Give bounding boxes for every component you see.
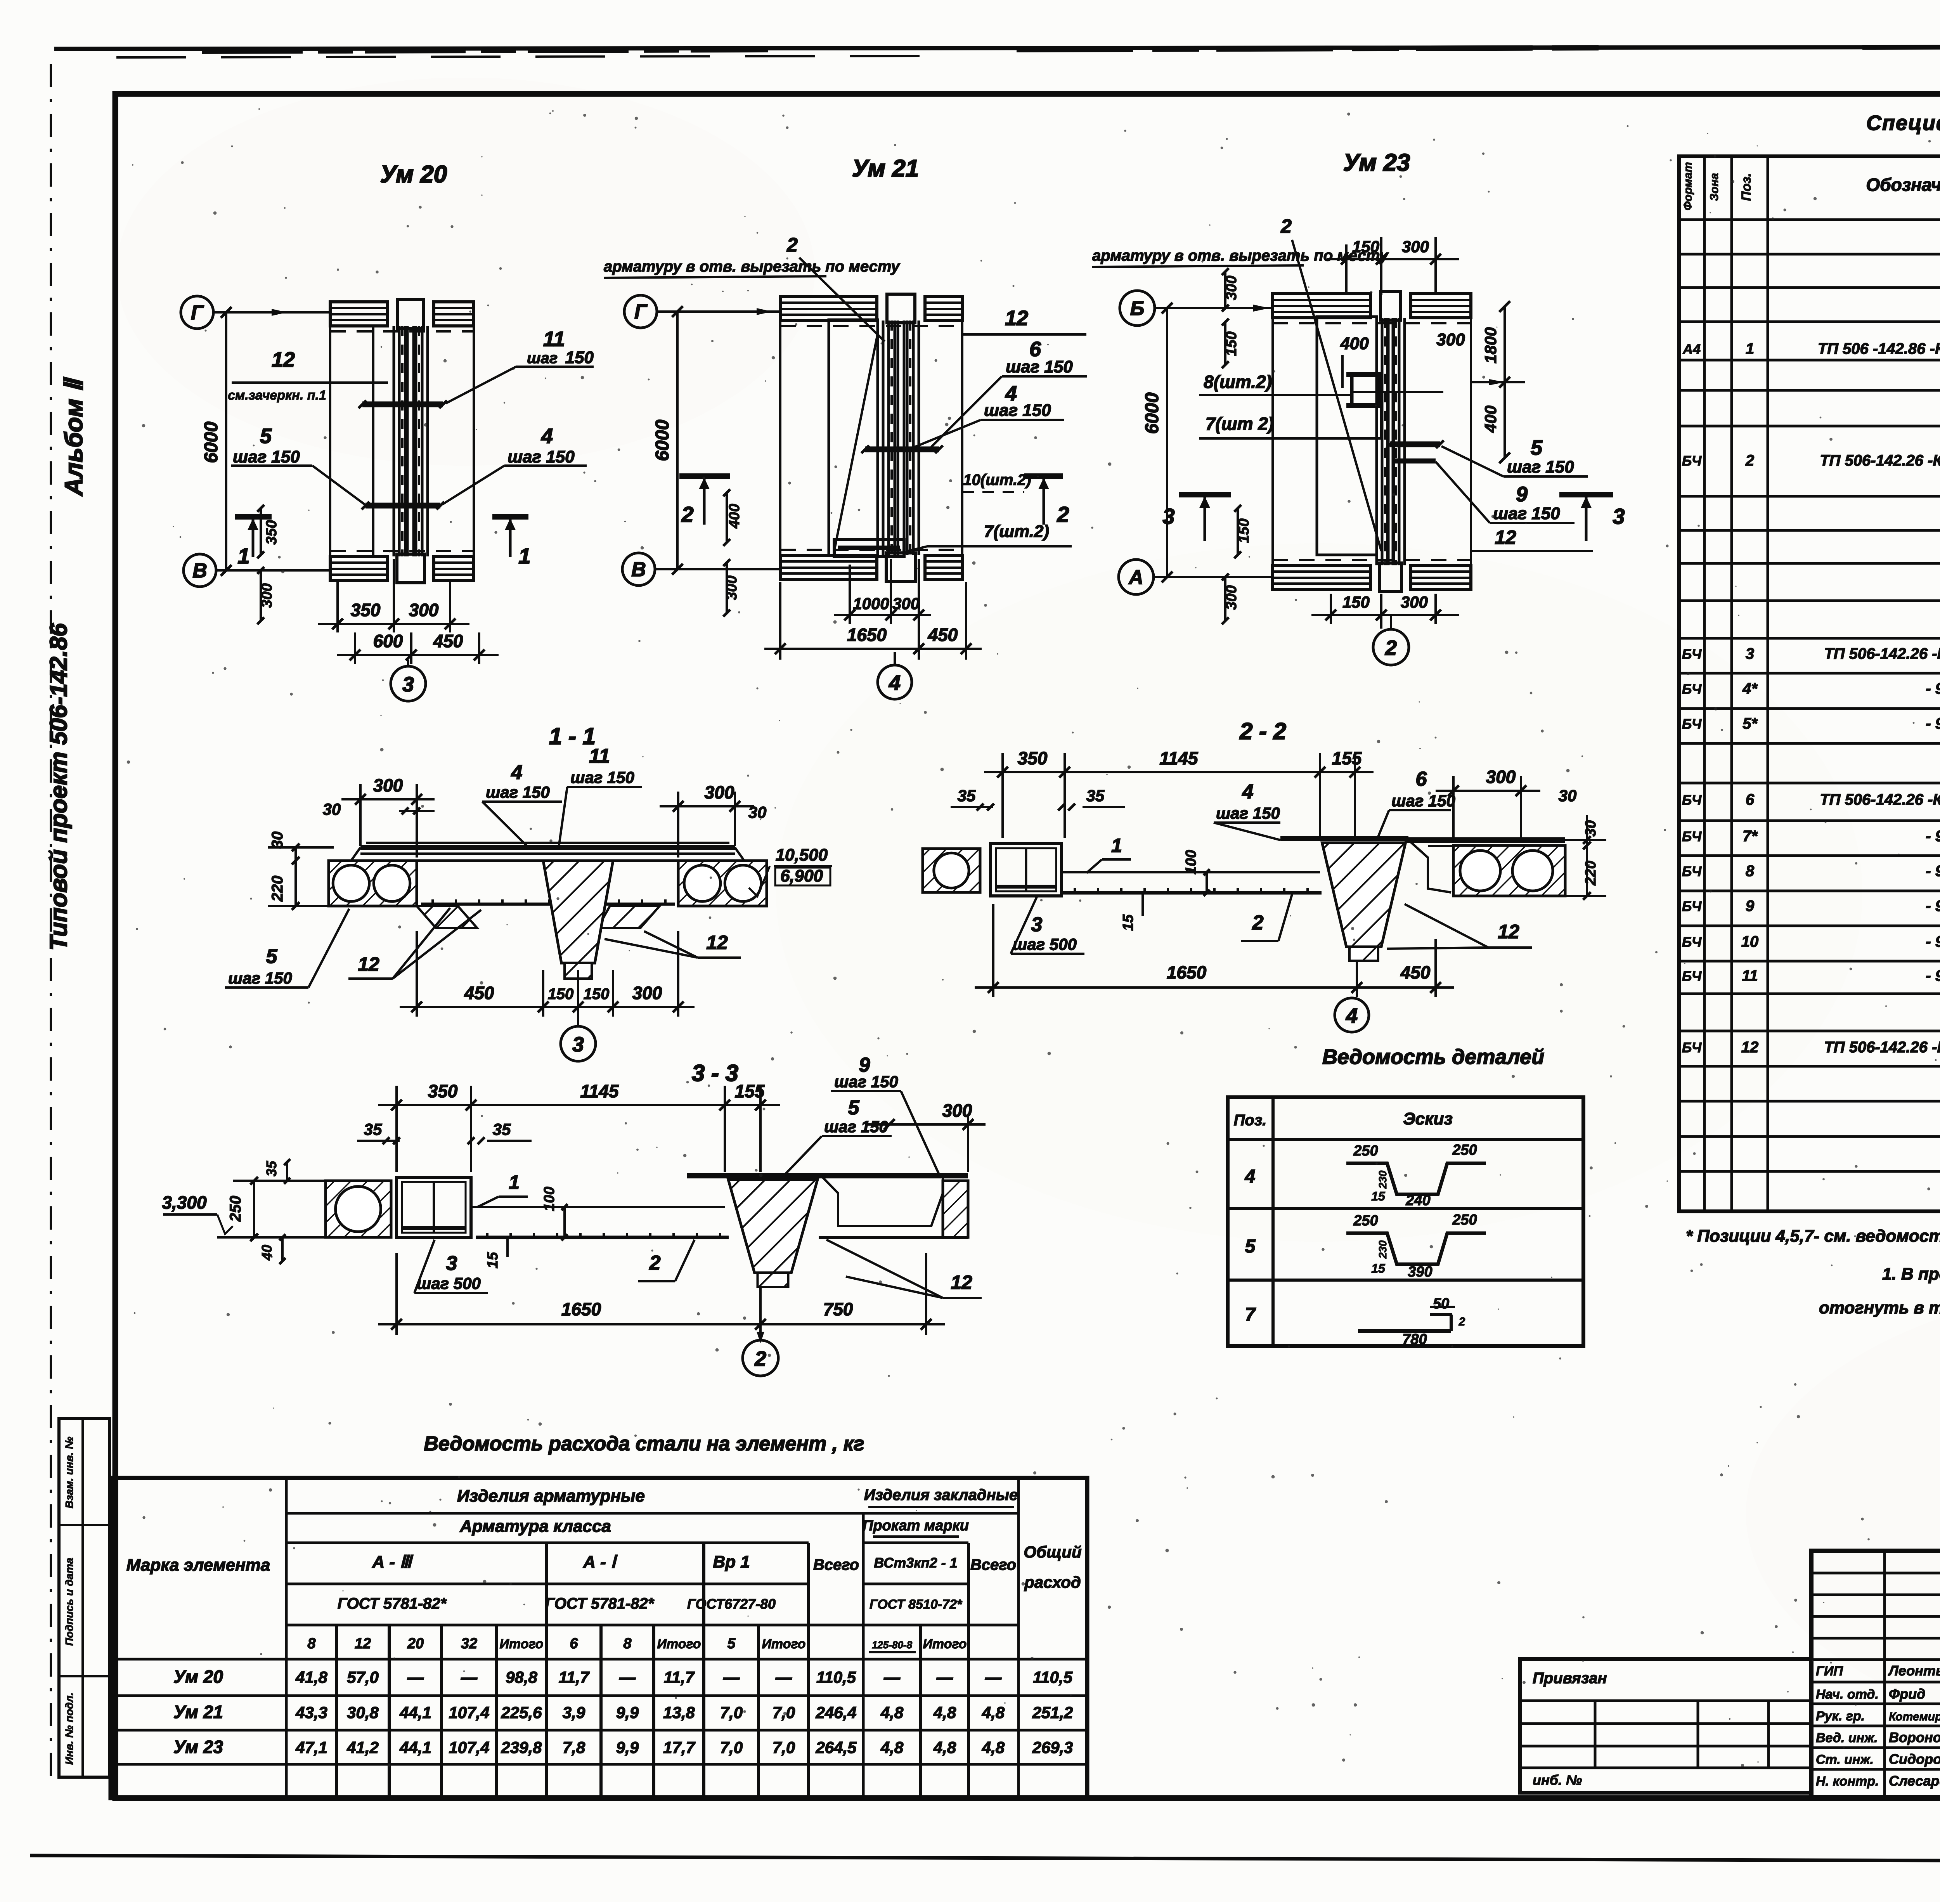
- svg-text:600: 600: [373, 631, 403, 651]
- svg-text:шаг 150: шаг 150: [824, 1117, 888, 1136]
- svg-text:450: 450: [1400, 962, 1431, 982]
- svg-text:4,8: 4,8: [982, 1738, 1005, 1757]
- rebar bar pos 4/5: [365, 503, 440, 509]
- svg-text:3: 3: [402, 673, 414, 696]
- joint rib: [687, 1173, 823, 1178]
- rebar bar pos 11: [362, 402, 443, 407]
- svg-text:35: 35: [1086, 787, 1105, 805]
- joint wings: [417, 906, 477, 928]
- svg-text:—: —: [407, 1668, 424, 1686]
- svg-text:41,8: 41,8: [295, 1668, 327, 1686]
- svg-text:100: 100: [541, 1187, 558, 1211]
- sheet left dash-dot edge: [50, 64, 52, 1781]
- beam box: [991, 844, 1062, 896]
- svg-text:шаг 150: шаг 150: [834, 1072, 898, 1091]
- svg-text:Ум 20: Ум 20: [173, 1667, 223, 1687]
- svg-text:Прокат марки: Прокат марки: [863, 1518, 969, 1534]
- svg-text:4: 4: [1346, 1004, 1358, 1027]
- specification table: [1679, 107, 1940, 1211]
- section bubble 4: [894, 652, 896, 665]
- svg-text:4: 4: [1245, 1166, 1256, 1187]
- dim 300 top-left: [359, 784, 362, 846]
- svg-text:1650: 1650: [561, 1299, 601, 1319]
- svg-text:Сидорова: Сидорова: [1889, 1751, 1940, 1767]
- svg-text:15: 15: [1120, 914, 1136, 931]
- svg-text:3: 3: [1613, 504, 1625, 528]
- svg-text:239,8: 239,8: [501, 1738, 542, 1757]
- joint slab lines: [417, 859, 543, 862]
- svg-text:300: 300: [1401, 593, 1428, 611]
- svg-text:1650: 1650: [847, 625, 887, 645]
- grid circle B: [1120, 291, 1155, 326]
- svg-text:5: 5: [1531, 436, 1543, 459]
- svg-text:5: 5: [727, 1635, 736, 1652]
- svg-text:98,8: 98,8: [506, 1668, 537, 1686]
- right hollow slab: [678, 861, 767, 906]
- svg-text:3: 3: [1031, 913, 1043, 936]
- svg-text:Спецификация: Спецификация: [1866, 111, 1940, 135]
- svg-text:Поз.: Поз.: [1739, 173, 1754, 201]
- svg-text:5: 5: [260, 424, 272, 448]
- vertical dim 6000: [225, 312, 227, 570]
- svg-text:150: 150: [1342, 593, 1370, 611]
- svg-text:2: 2: [1385, 636, 1397, 660]
- svg-text:шаг 150: шаг 150: [1493, 504, 1560, 523]
- svg-text:44,1: 44,1: [399, 1738, 431, 1757]
- svg-text:1650: 1650: [1167, 962, 1207, 982]
- svg-text:12: 12: [358, 953, 379, 975]
- bottom dims 1650/450: [992, 904, 994, 997]
- svg-text:10: 10: [1741, 933, 1759, 950]
- svg-text:30: 30: [748, 803, 767, 821]
- section mark 3 left: [1179, 492, 1231, 497]
- svg-text:13,8: 13,8: [663, 1703, 695, 1722]
- dims 150/300 bottom: [1330, 594, 1332, 624]
- section 3-3: [162, 1054, 986, 1376]
- svg-text:9: 9: [1746, 897, 1755, 915]
- svg-text:12: 12: [1005, 307, 1028, 330]
- svg-text:300: 300: [1402, 237, 1429, 256]
- svg-text:5: 5: [266, 945, 278, 968]
- vertical dim 6000: [676, 312, 679, 569]
- opening outline: [829, 320, 878, 556]
- svg-text:шаг 150: шаг 150: [1216, 804, 1280, 822]
- svg-text:Б: Б: [1130, 297, 1145, 320]
- svg-text:ГОСТ6727-80: ГОСТ6727-80: [687, 1596, 776, 1612]
- svg-text:Ум 20: Ум 20: [380, 161, 447, 188]
- svg-text:5: 5: [1245, 1236, 1256, 1257]
- sheet bottom edge: [30, 1855, 1940, 1862]
- detail 8 box: [1352, 374, 1379, 405]
- section mark 2 left: [679, 473, 730, 479]
- svg-text:Котемировская: Котемировская: [1889, 1710, 1940, 1723]
- svg-text:3: 3: [1746, 645, 1754, 662]
- svg-text:Всего: Всего: [813, 1556, 859, 1573]
- svg-text:47,1: 47,1: [295, 1738, 327, 1757]
- svg-text:30: 30: [269, 832, 286, 849]
- svg-text:3: 3: [572, 1033, 584, 1056]
- svg-text:Ст. инж.: Ст. инж.: [1816, 1752, 1874, 1767]
- svg-text:Изделия закладные: Изделия закладные: [864, 1486, 1018, 1504]
- svg-text:15: 15: [1371, 1189, 1386, 1203]
- svg-text:35: 35: [958, 787, 976, 805]
- svg-text:8(шт.2): 8(шт.2): [1204, 372, 1272, 392]
- svg-text:2: 2: [1280, 215, 1292, 237]
- svg-text:250: 250: [1353, 1213, 1378, 1229]
- svg-text:250: 250: [1452, 1212, 1477, 1228]
- svg-text:Итого: Итого: [762, 1637, 805, 1651]
- svg-text:Нач. отд.: Нач. отд.: [1816, 1687, 1879, 1702]
- svg-text:2: 2: [1745, 452, 1754, 469]
- svg-text:12: 12: [272, 348, 295, 371]
- svg-text:БЧ: БЧ: [1682, 646, 1702, 662]
- svg-text:110,5: 110,5: [816, 1668, 856, 1686]
- svg-text:4,8: 4,8: [933, 1738, 956, 1757]
- left partial slab: [326, 1181, 391, 1237]
- svg-text:ГИП: ГИП: [1816, 1664, 1843, 1679]
- svg-text:Типовой проект 506-142.86: Типовой проект 506-142.86: [45, 623, 72, 951]
- svg-text:Леонтьев: Леонтьев: [1888, 1663, 1940, 1679]
- svg-text:ГОСТ 8510-72*: ГОСТ 8510-72*: [870, 1597, 963, 1612]
- svg-text:Привязан: Привязан: [1533, 1670, 1607, 1687]
- svg-text:350: 350: [1018, 748, 1048, 768]
- svg-text:150: 150: [548, 986, 574, 1003]
- svg-text:2: 2: [786, 234, 798, 256]
- dims 1650/450: [779, 582, 781, 660]
- svg-text:Ум 23: Ум 23: [1343, 149, 1410, 176]
- svg-text:БЧ: БЧ: [1682, 828, 1702, 844]
- bottom mesh: [421, 903, 675, 906]
- svg-text:Вед. инж.: Вед. инж.: [1816, 1731, 1878, 1745]
- svg-text:250: 250: [1353, 1143, 1378, 1159]
- svg-text:6,900: 6,900: [780, 866, 823, 885]
- svg-text:Итого: Итого: [923, 1637, 967, 1651]
- section bubble 2: [1390, 615, 1392, 629]
- svg-text:400: 400: [726, 504, 743, 528]
- svg-text:300: 300: [892, 594, 920, 613]
- dim 300 right: [967, 1114, 969, 1172]
- svg-text:ТП 506-142.26 -КЖИ - 943.00: ТП 506-142.26 -КЖИ - 943.00: [1820, 791, 1940, 808]
- svg-text:9: 9: [1516, 483, 1528, 506]
- svg-text:250: 250: [1452, 1142, 1477, 1158]
- plan view Um20: [181, 161, 594, 701]
- svg-text:—: —: [883, 1668, 901, 1686]
- svg-text:11,7: 11,7: [559, 1668, 590, 1686]
- svg-text:35: 35: [364, 1120, 382, 1138]
- svg-text:50: 50: [1433, 1296, 1449, 1312]
- svg-text:- 970.00: - 970.00: [1926, 967, 1940, 984]
- svg-text:11: 11: [1742, 967, 1758, 984]
- svg-text:2: 2: [1458, 1315, 1465, 1328]
- svg-text:Ум 21: Ум 21: [173, 1702, 223, 1722]
- svg-text:—: —: [461, 1668, 478, 1686]
- vertical dim 6000: [1166, 308, 1168, 577]
- svg-text:4: 4: [889, 671, 901, 695]
- svg-text:35: 35: [263, 1161, 279, 1176]
- joint rib: [1280, 836, 1408, 841]
- section mark 1 left: [235, 514, 272, 520]
- privyazan box: [1520, 1659, 1811, 1793]
- svg-text:Инв. № подл.: Инв. № подл.: [63, 1693, 75, 1765]
- svg-text:ГОСТ 5781-82*: ГОСТ 5781-82*: [338, 1595, 447, 1612]
- svg-text:450: 450: [464, 983, 494, 1003]
- svg-text:ТП 506-142.26 -КЖИ-966.00: ТП 506-142.26 -КЖИ-966.00: [1824, 645, 1940, 662]
- svg-text:Слесарева: Слесарева: [1889, 1773, 1940, 1789]
- svg-text:—: —: [985, 1668, 1002, 1686]
- svg-text:2: 2: [1252, 911, 1264, 934]
- svg-text:2: 2: [649, 1252, 661, 1274]
- svg-text:1145: 1145: [580, 1081, 619, 1101]
- left hollow slab: [329, 861, 417, 906]
- svg-text:20: 20: [407, 1635, 424, 1652]
- svg-text:400: 400: [1481, 405, 1500, 433]
- svg-text:300: 300: [409, 600, 439, 620]
- svg-text:7,0: 7,0: [773, 1738, 795, 1757]
- svg-text:—: —: [619, 1668, 636, 1686]
- svg-text:3 - 3: 3 - 3: [692, 1060, 738, 1086]
- grid circle V: [622, 553, 655, 586]
- section bubble 4: [1356, 988, 1358, 997]
- title block: [1811, 1551, 1940, 1827]
- svg-text:7*: 7*: [1743, 828, 1758, 845]
- grid circle A: [1119, 560, 1154, 594]
- beam box: [397, 1177, 471, 1237]
- svg-text:43,3: 43,3: [295, 1703, 327, 1722]
- svg-text:2: 2: [754, 1347, 766, 1370]
- svg-text:Всего: Всего: [970, 1556, 1016, 1573]
- svg-text:8: 8: [623, 1635, 632, 1652]
- svg-text:44,1: 44,1: [399, 1703, 431, 1722]
- plan view Um21: [604, 155, 1087, 699]
- svg-text:1: 1: [509, 1171, 520, 1193]
- svg-text:шаг 150: шаг 150: [508, 447, 575, 466]
- rebar bar pos 5: [1390, 442, 1440, 447]
- section mark 3 right: [1559, 492, 1613, 497]
- svg-text:шаг 150: шаг 150: [233, 447, 300, 466]
- svg-text:1: 1: [1111, 835, 1122, 856]
- right channel slab: [819, 1173, 968, 1178]
- dims 35/35: [951, 806, 993, 808]
- svg-text:- 969.00: - 969.00: [1926, 863, 1940, 880]
- svg-text:6: 6: [570, 1635, 578, 1652]
- svg-text:Обозначение: Обозначение: [1866, 175, 1940, 195]
- svg-text:225,6: 225,6: [501, 1703, 542, 1722]
- svg-text:6: 6: [1416, 768, 1427, 790]
- svg-text:230: 230: [1377, 1240, 1389, 1259]
- svg-text:15: 15: [485, 1252, 501, 1268]
- svg-text:12: 12: [1498, 921, 1519, 942]
- svg-text:шаг: шаг: [527, 350, 558, 367]
- section mark 2 right: [1024, 473, 1063, 479]
- svg-text:7,8: 7,8: [563, 1738, 585, 1757]
- svg-text:шаг 500: шаг 500: [417, 1274, 481, 1292]
- svg-text:107,4: 107,4: [449, 1738, 489, 1757]
- svg-text:шаг 150: шаг 150: [486, 783, 550, 801]
- svg-text:шаг 150: шаг 150: [1507, 457, 1574, 476]
- svg-text:БЧ: БЧ: [1682, 1039, 1702, 1055]
- dim 1800 vert: [1503, 307, 1506, 382]
- svg-text:ГОСТ 5781-82*: ГОСТ 5781-82*: [545, 1595, 655, 1612]
- right trough lines: [1408, 840, 1451, 892]
- svg-text:Подпись и дата: Подпись и дата: [63, 1558, 75, 1646]
- dims 600/450: [354, 632, 356, 664]
- svg-text:250: 250: [227, 1196, 244, 1222]
- bottom corner bars pos 7: [834, 539, 904, 556]
- svg-text:40: 40: [259, 1245, 275, 1261]
- svg-text:отогнуть в тело бетона.: отогнуть в тело бетона.: [1819, 1298, 1940, 1317]
- svg-text:4: 4: [541, 424, 553, 448]
- svg-text:155: 155: [735, 1081, 765, 1101]
- svg-text:4,8: 4,8: [982, 1703, 1005, 1722]
- grid circle V: [184, 554, 216, 587]
- rebar bar pos 9: [1393, 459, 1436, 464]
- svg-text:Поз.: Поз.: [1234, 1112, 1267, 1129]
- svg-text:4,8: 4,8: [933, 1703, 956, 1722]
- svg-text:1: 1: [1746, 340, 1754, 357]
- svg-text:Итого: Итого: [657, 1637, 701, 1651]
- svg-text:30: 30: [1583, 820, 1599, 837]
- svg-text:- 967.00: - 967.00: [1926, 828, 1940, 845]
- svg-text:В: В: [631, 558, 646, 581]
- svg-text:шаг 150: шаг 150: [570, 768, 634, 787]
- section bubble 2: [759, 1324, 762, 1339]
- svg-text:см.зачеркн. п.1: см.зачеркн. п.1: [228, 388, 326, 403]
- dim 300 top-right: [677, 792, 679, 858]
- dims 35/35: [357, 1140, 400, 1142]
- svg-text:1: 1: [237, 544, 249, 568]
- svg-text:269,3: 269,3: [1032, 1738, 1073, 1757]
- svg-text:9,9: 9,9: [616, 1738, 639, 1757]
- dims 1000/300: [849, 565, 851, 624]
- svg-text:Зона: Зона: [1708, 173, 1721, 201]
- svg-text:300: 300: [942, 1100, 972, 1121]
- svg-text:1. В пределах отверстия ст: 1. В пределах отверстия стержни ( поз. 1…: [1882, 1265, 1940, 1284]
- svg-text:12: 12: [951, 1272, 972, 1293]
- svg-text:- 942.00: - 942.00: [1926, 680, 1940, 697]
- svg-text:2 - 2: 2 - 2: [1239, 718, 1286, 744]
- svg-text:шаг 150: шаг 150: [1006, 357, 1073, 376]
- svg-text:8: 8: [1746, 863, 1755, 880]
- vert dims 30/220: [294, 847, 297, 906]
- svg-text:230: 230: [1377, 1170, 1389, 1189]
- svg-text:350: 350: [351, 600, 381, 620]
- rebar bar pos 4/6: [865, 447, 939, 452]
- svg-text:Г: Г: [634, 301, 648, 323]
- svg-text:2: 2: [1057, 502, 1069, 527]
- svg-text:А4: А4: [1682, 341, 1701, 357]
- svg-text:Рук. гр.: Рук. гр.: [1816, 1709, 1865, 1724]
- svg-text:А - Ⅲ: А - Ⅲ: [372, 1552, 413, 1571]
- svg-text:шаг 150: шаг 150: [1391, 792, 1455, 810]
- svg-text:11: 11: [543, 327, 565, 351]
- svg-text:Арматура класса: Арматура класса: [459, 1517, 611, 1536]
- svg-text:12: 12: [1741, 1039, 1759, 1056]
- svg-text:12: 12: [706, 932, 728, 953]
- top dims 150/300: [1345, 244, 1348, 295]
- dims 350/300: [336, 582, 339, 632]
- svg-text:3: 3: [446, 1252, 457, 1275]
- svg-text:Вр 1: Вр 1: [713, 1552, 750, 1571]
- top dims 350/1145/155/300: [1001, 753, 1004, 838]
- svg-text:35: 35: [493, 1120, 511, 1138]
- svg-text:Взам. инв. №: Взам. инв. №: [63, 1437, 75, 1509]
- svg-text:264,5: 264,5: [815, 1738, 857, 1757]
- svg-text:3,9: 3,9: [563, 1703, 585, 1722]
- svg-text:Ведомость деталей: Ведомость деталей: [1322, 1045, 1544, 1069]
- svg-text:9,9: 9,9: [616, 1703, 639, 1722]
- svg-text:4,8: 4,8: [880, 1738, 904, 1757]
- svg-text:БЧ: БЧ: [1682, 934, 1702, 950]
- svg-text:- 958.00: - 958.00: [1926, 715, 1940, 732]
- svg-text:150: 150: [565, 348, 594, 367]
- svg-text:4*: 4*: [1742, 680, 1758, 697]
- sheet top edge line: [54, 47, 1940, 49]
- svg-text:30: 30: [323, 800, 341, 818]
- svg-text:шаг 150: шаг 150: [228, 969, 292, 987]
- svg-text:300: 300: [1486, 767, 1516, 787]
- svg-text:350: 350: [428, 1081, 458, 1101]
- svg-text:107,4: 107,4: [449, 1703, 489, 1722]
- svg-text:Итого: Итого: [499, 1637, 543, 1651]
- svg-text:10(шт.2): 10(шт.2): [963, 471, 1031, 489]
- svg-text:17,7: 17,7: [663, 1738, 695, 1757]
- svg-text:БЧ: БЧ: [1682, 968, 1702, 984]
- svg-text:32: 32: [461, 1635, 477, 1652]
- bottom dims section 1-1: [416, 931, 418, 1017]
- svg-text:11: 11: [589, 745, 610, 767]
- bottom dims 1650/750: [395, 1253, 398, 1335]
- svg-text:- 961.00: - 961.00: [1926, 897, 1940, 915]
- svg-text:750: 750: [823, 1299, 853, 1319]
- svg-text:3: 3: [1162, 504, 1174, 528]
- svg-text:Ум 21: Ум 21: [852, 155, 919, 182]
- svg-text:10,500: 10,500: [776, 845, 828, 865]
- margin stamp boxes: [59, 1419, 109, 1777]
- svg-text:30: 30: [1559, 787, 1577, 805]
- section bubble 3: [407, 660, 409, 666]
- svg-text:7,0: 7,0: [720, 1738, 743, 1757]
- svg-text:125-80-8: 125-80-8: [872, 1639, 913, 1651]
- svg-text:5*: 5*: [1743, 715, 1758, 732]
- thin monolithic slab: [1062, 871, 1320, 873]
- svg-text:А: А: [1128, 566, 1143, 589]
- thin monolithic slab: [471, 1206, 725, 1208]
- svg-text:150: 150: [1352, 237, 1379, 256]
- svg-text:251,2: 251,2: [1032, 1703, 1073, 1722]
- svg-text:6000: 6000: [201, 421, 222, 463]
- svg-text:инб. №: инб. №: [1533, 1772, 1582, 1788]
- svg-text:- 959.00: - 959.00: [1926, 933, 1940, 950]
- svg-text:1: 1: [518, 544, 530, 568]
- right topping: [1405, 837, 1565, 843]
- monolithic topping: [360, 845, 735, 850]
- svg-text:7,0: 7,0: [720, 1703, 743, 1722]
- dim 30 left: [399, 810, 435, 812]
- svg-text:Формат: Формат: [1682, 162, 1694, 210]
- svg-text:1145: 1145: [1160, 748, 1199, 768]
- opening outline: [1317, 317, 1377, 555]
- svg-text:780: 780: [1402, 1331, 1427, 1348]
- svg-text:3,300: 3,300: [162, 1192, 207, 1213]
- details list table: [1228, 1045, 1583, 1348]
- svg-text:ТП 506-142.26 -КЖИ - 969.00: ТП 506-142.26 -КЖИ - 969.00: [1820, 452, 1940, 469]
- svg-text:155: 155: [1332, 748, 1362, 768]
- svg-text:30,8: 30,8: [347, 1703, 379, 1722]
- svg-text:шаг 150: шаг 150: [984, 401, 1051, 420]
- svg-text:7(шт.2): 7(шт.2): [984, 522, 1049, 541]
- svg-text:450: 450: [433, 631, 463, 651]
- svg-text:1800: 1800: [1481, 327, 1500, 363]
